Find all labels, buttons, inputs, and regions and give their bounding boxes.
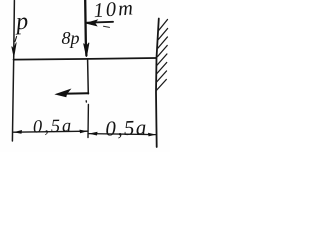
left dimension left arrowhead [13,130,22,134]
right dimension line 0,5a [89,134,156,135]
moment 10m arrowhead (points left) [86,20,98,26]
svg-text:0,5a: 0,5a [33,116,74,137]
force 8P line [85,0,86,56]
wire left vertical line (force P line + extension line) [12,1,14,142]
right dimension right arrowhead [148,133,156,137]
mid extension dot [85,101,87,102]
svg-text:8p: 8p [62,28,80,48]
horizontal force arrowhead [56,89,71,97]
moment arrow stray barb [104,26,110,27]
horizontal force arrow line (points left) [62,92,88,95]
svg-text:10m: 10m [93,0,136,22]
left dimension line 0,5a [14,131,88,132]
wall line [156,19,159,148]
left dimension right arrowhead [80,130,88,134]
force P arrowhead [12,43,17,57]
mid extension lower segment [87,105,89,138]
force P barb tick [15,37,17,42]
moment 10m arrow line [87,21,113,24]
mid vertical extension below beam [87,60,90,94]
force 8P arrowhead [84,43,89,57]
svg-text:0,5a: 0,5a [105,115,148,140]
beam [14,58,157,60]
wall hatching [156,20,167,91]
svg-text:p: p [13,9,29,36]
right dimension left arrowhead [89,132,98,136]
